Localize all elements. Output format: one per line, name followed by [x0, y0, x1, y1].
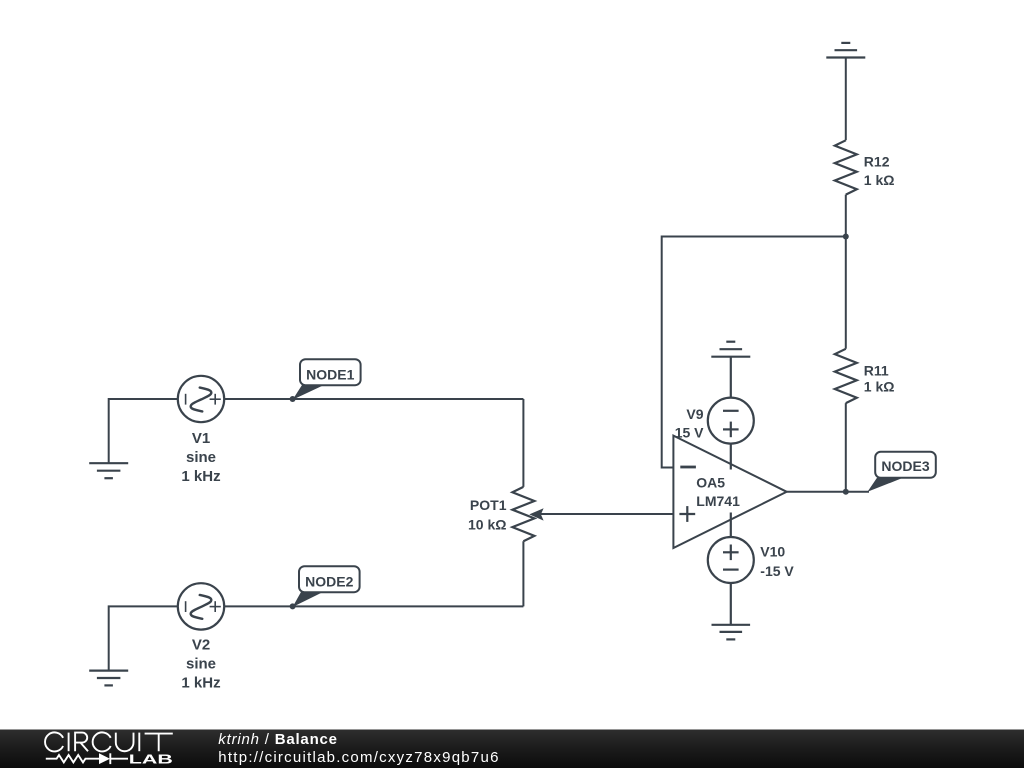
logo resistor-diode symbol — [46, 753, 128, 764]
junction node V1-NODE1 — [290, 396, 296, 402]
svg-text:1 kΩ: 1 kΩ — [864, 172, 895, 188]
label R12 value — [864, 154, 895, 188]
wire V2 row — [109, 606, 178, 670]
svg-text:LM741: LM741 — [696, 493, 740, 509]
label POT1 value — [468, 497, 507, 533]
svg-text:V10: V10 — [760, 544, 785, 560]
svg-text:NODE2: NODE2 — [305, 574, 353, 590]
ground GND4 (below V10) — [712, 625, 751, 640]
svg-text:R11: R11 — [864, 362, 889, 378]
voltage source V1 (sine) — [178, 376, 224, 422]
U — [116, 733, 134, 752]
svg-text:1 kHz: 1 kHz — [181, 675, 220, 692]
T — [145, 734, 173, 752]
footer bar — [0, 730, 1024, 768]
R — [75, 733, 88, 752]
I — [138, 733, 140, 752]
svg-text:10 kΩ: 10 kΩ — [468, 517, 506, 533]
voltage source V2 (sine) — [178, 583, 224, 629]
node flag NODE1 — [293, 359, 361, 400]
svg-text:NODE3: NODE3 — [881, 458, 929, 474]
svg-text:POT1: POT1 — [470, 497, 507, 513]
svg-text:-15 V: -15 V — [760, 563, 794, 579]
ground GND5 (top, flipped) — [826, 43, 865, 58]
potentiometer POT1 — [512, 399, 673, 606]
label V2 value — [181, 637, 220, 692]
op-amp minus input mark — [680, 466, 696, 469]
resistor R11 — [835, 237, 857, 492]
label V1 value — [181, 430, 220, 485]
voltage source V10 — [708, 513, 754, 625]
label V10 value — [760, 544, 794, 579]
wire V1 row — [109, 399, 178, 463]
voltage source V9 — [708, 357, 754, 470]
svg-text:R12: R12 — [864, 154, 890, 170]
junction node output-R11 — [843, 489, 849, 495]
svg-text:ktrinh / Balance: ktrinh / Balance — [218, 731, 338, 748]
svg-text:NODE1: NODE1 — [306, 367, 354, 383]
label V9 value — [675, 406, 704, 441]
ground GND3 (above V9, flipped) — [711, 342, 750, 357]
node flag NODE3 — [868, 452, 936, 492]
C — [45, 732, 63, 751]
svg-text:1 kHz: 1 kHz — [181, 468, 220, 485]
svg-text:V1: V1 — [192, 430, 210, 447]
I — [68, 733, 70, 752]
resistor R12 — [835, 58, 857, 237]
op-amp plus input mark — [679, 506, 695, 522]
svg-text:V2: V2 — [192, 637, 210, 654]
svg-text:LAB: LAB — [129, 752, 173, 767]
wire op-amp output — [787, 491, 869, 493]
svg-text:1 kΩ: 1 kΩ — [864, 379, 895, 395]
op-amp OA5 triangle — [673, 436, 786, 548]
ground GND1 (V1) — [89, 463, 128, 478]
junction node V2-NODE2 — [290, 603, 296, 609]
C — [93, 732, 111, 751]
logo CIRCUIT letters — [45, 732, 173, 751]
node flag NODE2 — [293, 566, 360, 607]
ground GND2 (V2) — [89, 671, 128, 686]
svg-text:sine: sine — [186, 656, 216, 673]
svg-text:15 V: 15 V — [675, 425, 704, 441]
label OA5 — [696, 475, 740, 510]
wire feedback loop — [662, 237, 846, 468]
label R11 value — [864, 362, 895, 394]
svg-text:http://circuitlab.com/cxyz78x9: http://circuitlab.com/cxyz78x9qb7u6 — [218, 749, 499, 766]
junction node feedback-R12 — [843, 234, 849, 240]
svg-text:sine: sine — [186, 449, 216, 466]
svg-text:OA5: OA5 — [696, 475, 725, 491]
svg-text:V9: V9 — [686, 406, 703, 422]
